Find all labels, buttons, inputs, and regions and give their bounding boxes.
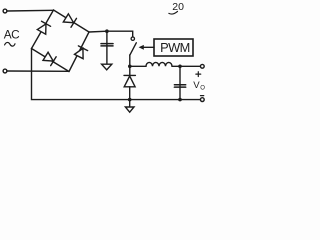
switch S1 contact <box>131 37 134 40</box>
bridge edge upper-right <box>54 10 90 32</box>
diode D5 lead bottom <box>129 87 131 100</box>
bridge edge upper-left <box>32 10 54 49</box>
junction dot mid node <box>128 65 132 69</box>
svg-text:O: O <box>200 86 205 92</box>
junction dot bottom rail / C2 <box>178 98 182 102</box>
terminal output plus <box>200 64 204 68</box>
plus sign output <box>197 72 199 77</box>
bridge edge lower-right <box>69 32 89 72</box>
terminal AC top-left <box>3 9 7 13</box>
ground arrow 1 lead <box>106 47 108 65</box>
diode D5 triangle <box>124 76 135 87</box>
capacitor C1 plates <box>101 43 113 45</box>
wire DC minus: left vertical and bottom rail <box>32 49 201 100</box>
PWM arrow line <box>143 46 154 48</box>
wire AC1 to bridge apex <box>7 9 54 12</box>
label 20 leader swoosh <box>169 11 178 14</box>
svg-text:PWM: PWM <box>160 40 189 55</box>
svg-text:AC: AC <box>4 28 20 42</box>
diode D3 lower-left edge <box>43 52 56 66</box>
wire DC plus: top rail to switch <box>89 31 133 37</box>
capacitor C2 lead top <box>179 66 181 86</box>
capacitor C2 plates <box>174 84 185 86</box>
PWM box U1 <box>154 39 193 56</box>
diode D5 cathode bar <box>124 74 135 76</box>
svg-text:20: 20 <box>172 1 184 13</box>
wire switch to mid node <box>129 55 131 66</box>
junction dot mid rail / C2 <box>178 65 182 69</box>
PWM arrowhead <box>139 45 144 50</box>
junction dot top rail / C1 <box>105 29 109 33</box>
ground arrow 1 <box>102 64 112 70</box>
diode D4 lower-right edge <box>74 46 87 59</box>
wire inductor to output terminal <box>172 65 200 67</box>
inductor L1 <box>146 62 172 66</box>
terminal output minus <box>200 98 204 102</box>
ground arrow 2 <box>125 107 134 112</box>
tilde AC sine symbol <box>5 42 15 46</box>
wire AC2 to bridge bottom vertex <box>7 70 69 72</box>
diode D5 freewheel lead top <box>129 66 131 75</box>
minus sign output <box>201 95 204 97</box>
switch S1 blade <box>130 43 137 55</box>
bridge edge lower-left <box>32 49 70 72</box>
terminal AC bottom-left <box>3 69 7 73</box>
capacitor C1 lead top <box>106 31 108 45</box>
diode D1 upper-left edge <box>37 21 51 34</box>
junction dot bottom rail / D5 <box>128 98 132 102</box>
wire mid rail to inductor <box>130 65 146 67</box>
capacitor C2 lead bottom <box>179 88 181 100</box>
svg-text:V: V <box>193 80 200 91</box>
diode D2 upper-right edge <box>63 13 76 27</box>
ground arrow 2 lead <box>129 100 131 107</box>
